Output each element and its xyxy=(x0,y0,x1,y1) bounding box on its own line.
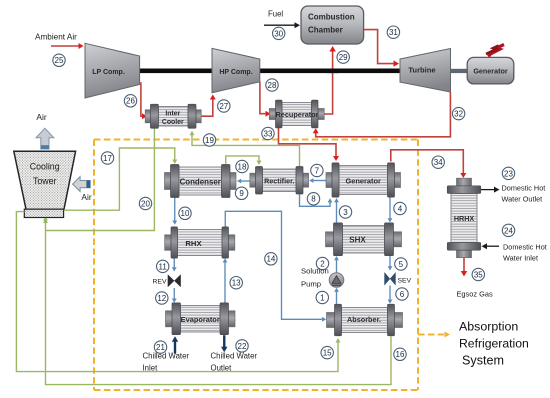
svg-text:Egsoz Gas: Egsoz Gas xyxy=(457,290,493,299)
svg-text:LP Comp.: LP Comp. xyxy=(92,69,125,76)
svg-text:7: 7 xyxy=(315,166,320,175)
svg-text:HP Comp.: HP Comp. xyxy=(219,69,252,76)
svg-text:32: 32 xyxy=(454,110,463,119)
svg-text:Generator: Generator xyxy=(346,176,381,185)
svg-text:29: 29 xyxy=(339,53,348,62)
svg-text:1: 1 xyxy=(320,293,325,302)
svg-text:Water Outlet: Water Outlet xyxy=(502,195,543,204)
svg-text:18: 18 xyxy=(238,162,247,171)
svg-text:Outlet: Outlet xyxy=(211,364,233,373)
svg-text:25: 25 xyxy=(55,56,64,65)
svg-text:Combustion: Combustion xyxy=(308,13,355,22)
svg-text:Cooling: Cooling xyxy=(30,162,60,172)
svg-text:10: 10 xyxy=(181,209,190,218)
svg-text:12: 12 xyxy=(157,294,166,303)
svg-text:Air: Air xyxy=(36,112,46,122)
svg-text:Water Inlet: Water Inlet xyxy=(503,254,538,263)
svg-text:5: 5 xyxy=(399,260,404,269)
svg-text:Recuperator: Recuperator xyxy=(276,110,319,119)
svg-text:Absorber.: Absorber. xyxy=(347,315,381,324)
svg-text:31: 31 xyxy=(389,28,398,37)
svg-text:3: 3 xyxy=(343,208,348,217)
svg-text:34: 34 xyxy=(434,158,443,167)
svg-text:20: 20 xyxy=(141,199,150,208)
svg-text:26: 26 xyxy=(126,97,135,106)
svg-text:HRHX: HRHX xyxy=(454,214,475,223)
svg-text:17: 17 xyxy=(103,154,112,163)
svg-text:Turbine: Turbine xyxy=(408,66,435,75)
svg-text:15: 15 xyxy=(323,349,332,358)
svg-text:22: 22 xyxy=(238,342,247,351)
svg-text:Cooler: Cooler xyxy=(162,119,184,126)
svg-text:14: 14 xyxy=(266,255,275,264)
svg-text:24: 24 xyxy=(504,226,513,235)
svg-text:Evaporator: Evaporator xyxy=(181,315,220,324)
svg-text:35: 35 xyxy=(474,270,483,279)
svg-text:30: 30 xyxy=(274,29,283,38)
svg-text:Generator: Generator xyxy=(473,67,508,76)
svg-text:13: 13 xyxy=(232,279,241,288)
svg-text:Air: Air xyxy=(81,192,91,202)
svg-text:28: 28 xyxy=(268,81,277,90)
svg-text:Tower: Tower xyxy=(33,176,57,186)
svg-text:6: 6 xyxy=(400,290,405,299)
svg-text:Absorption: Absorption xyxy=(459,320,518,334)
svg-text:Inter: Inter xyxy=(165,111,180,118)
svg-text:Chilled Water: Chilled Water xyxy=(143,352,190,361)
svg-text:Solution: Solution xyxy=(301,267,329,276)
svg-text:SHX: SHX xyxy=(349,236,366,245)
svg-text:Inlet: Inlet xyxy=(143,364,159,373)
svg-text:Chamber: Chamber xyxy=(308,26,343,35)
svg-text:REV: REV xyxy=(153,279,167,286)
svg-text:27: 27 xyxy=(219,102,228,111)
svg-text:Fuel: Fuel xyxy=(268,10,283,19)
svg-text:Chilled Water: Chilled Water xyxy=(211,352,258,361)
svg-text:23: 23 xyxy=(504,169,513,178)
svg-text:Domestic Hot: Domestic Hot xyxy=(503,242,547,251)
svg-text:System: System xyxy=(462,354,504,368)
svg-text:9: 9 xyxy=(239,189,244,198)
svg-text:Refrigeration: Refrigeration xyxy=(459,337,529,351)
svg-text:Condenser: Condenser xyxy=(180,177,221,186)
svg-text:Rectifier.: Rectifier. xyxy=(264,177,294,186)
svg-text:11: 11 xyxy=(159,262,168,271)
svg-text:19: 19 xyxy=(205,136,214,145)
svg-text:33: 33 xyxy=(264,129,273,138)
svg-text:4: 4 xyxy=(398,204,403,213)
svg-text:8: 8 xyxy=(311,195,316,204)
svg-text:Domestic Hot: Domestic Hot xyxy=(502,183,546,192)
svg-text:Ambient Air: Ambient Air xyxy=(35,33,77,42)
svg-text:SEV: SEV xyxy=(398,278,412,285)
svg-text:RHX: RHX xyxy=(185,239,202,248)
svg-text:Pump: Pump xyxy=(301,280,321,289)
svg-text:16: 16 xyxy=(396,350,405,359)
